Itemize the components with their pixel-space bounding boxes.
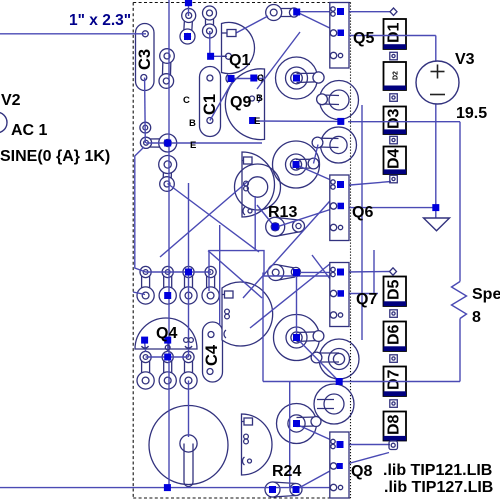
svg-text:D1: D1 [386, 22, 403, 43]
power transistor pad B2 [317, 81, 359, 120]
pin diamond above D5 [390, 268, 397, 275]
wire diag g3 [257, 32, 300, 89]
wire T3 to junction [209, 31, 211, 53]
wire v2 stubs [188, 3, 190, 17]
resistor R13 footprint [266, 217, 305, 236]
wire diag g5 [168, 184, 260, 253]
resistor row1 footprints x4 [137, 266, 219, 304]
svg-text:Speak: Speak [472, 286, 500, 303]
transistor package lower-mid (flat-left) [222, 282, 273, 346]
svg-text:D6: D6 [386, 324, 403, 345]
resistor R24 footprint [265, 482, 302, 497]
capacitor C1 footprint [200, 67, 221, 137]
pin markers mid package [242, 157, 252, 215]
wire diag g12 [250, 263, 331, 328]
Q4 pad marks [142, 338, 194, 350]
power output pad B10 big [149, 406, 228, 487]
svg-text:D2: D2 [393, 71, 400, 80]
wire row2 tops [146, 356, 189, 358]
power transistor pad B6 [274, 315, 324, 361]
connector strip Q5 [330, 3, 349, 69]
wire Q4 pad stubs [145, 341, 146, 352]
wire Q8 pad1 to D8 pad [343, 444, 390, 446]
wire diag g14 [298, 425, 340, 444]
wire gnd horizontal [349, 207, 436, 209]
wire diag g1 [236, 16, 268, 33]
resistor footprint top T3 [203, 6, 217, 38]
svg-text:Q5: Q5 [353, 30, 374, 47]
svg-text:C3: C3 [136, 49, 154, 70]
wire H5 to Q7 [300, 271, 330, 273]
diode D3 [384, 107, 407, 135]
wire diag g16 [297, 338, 340, 382]
diode D5 [384, 277, 407, 307]
wire diag g8 [277, 206, 341, 227]
diode chain pads [389, 52, 398, 449]
wire v8 [289, 382, 291, 488]
power transistor pad B8 [314, 384, 354, 424]
wire h4 [146, 142, 262, 144]
svg-text:D8: D8 [386, 414, 403, 435]
resistor footprint top T2 [180, 9, 196, 45]
svg-text:C4: C4 [203, 344, 221, 366]
power transistor pad B5 partial [235, 164, 281, 210]
wire over D3 [348, 121, 460, 123]
wire right rail top [459, 122, 461, 282]
pin markers Q9 [250, 75, 264, 103]
diode D4 [384, 147, 407, 175]
wire diag g11 [314, 145, 319, 164]
connector strip Q6 [330, 175, 349, 241]
wire v10 [361, 105, 363, 340]
wire diag g15 [297, 466, 339, 489]
diode D2 [384, 62, 407, 90]
svg-text:Q4: Q4 [156, 325, 177, 342]
svg-text:.lib TIP127.LIB: .lib TIP127.LIB [384, 479, 493, 496]
svg-text:B: B [256, 93, 263, 104]
svg-text:AC 1: AC 1 [11, 122, 48, 139]
svg-text:.lib TIP121.LIB: .lib TIP121.LIB [383, 462, 492, 479]
svg-text:D5: D5 [386, 279, 403, 300]
capacitor C4 footprint [203, 322, 223, 382]
svg-text:SINE(0 {A} 1K): SINE(0 {A} 1K) [0, 148, 110, 165]
wire v14 [188, 381, 190, 438]
ground symbol [424, 218, 450, 231]
wire over D1 [349, 35, 436, 37]
wire diag g10 [257, 205, 274, 226]
svg-text:E: E [190, 140, 196, 151]
svg-text:R24: R24 [272, 463, 301, 480]
svg-text:Q9: Q9 [230, 94, 251, 111]
capacitor C3 footprint [136, 24, 155, 91]
svg-text:Q1: Q1 [229, 52, 250, 69]
svg-text:C: C [257, 73, 264, 84]
board outline dashed 1" x 2.3" [133, 3, 350, 499]
connector strip Q7 [330, 263, 349, 327]
transistor Q1 package TO-92 [222, 22, 255, 73]
pin diamond above D1 [390, 8, 397, 15]
wire diag g6 [160, 182, 247, 257]
wire right rail bottom [459, 319, 461, 382]
wire rect loop [209, 251, 331, 291]
transistor Q4 package (flat-bottom) [135, 318, 197, 349]
wire diag g4 [210, 80, 234, 121]
wire over D7 [263, 381, 460, 383]
svg-text:8: 8 [472, 309, 481, 326]
wire h5 top [299, 11, 390, 13]
wire V3 bottom to gnd [435, 104, 437, 218]
wire h2 [231, 78, 263, 80]
wire Q6 pad1 to D4 pad [344, 182, 391, 186]
pin markers lower-mid package [222, 291, 233, 338]
wire v5 [219, 225, 221, 325]
wire V3 top [435, 36, 437, 62]
svg-text:Q6: Q6 [352, 204, 373, 221]
transistor package bottom (flat-left) [242, 414, 272, 475]
transistor Q9 package TO-92 [225, 69, 264, 140]
svg-text:E: E [254, 116, 260, 127]
resistor footprint pair left of C3 [159, 49, 174, 89]
pin markers bottom package [242, 418, 253, 465]
svg-text:C1: C1 [201, 94, 219, 115]
svg-text:D4: D4 [386, 148, 403, 169]
junction pads (blue squares) [141, 0, 439, 493]
power transistor pad B9 [277, 404, 322, 444]
diode D8 [384, 412, 407, 441]
transistor package mid (flat-left) [242, 152, 275, 217]
wire bottom rail [0, 487, 341, 489]
wire Q8 pad2 diag to D8 pad [339, 453, 389, 467]
wire Q7 pad2 right [344, 293, 378, 295]
wire v7 [262, 273, 264, 382]
svg-text:V2: V2 [1, 92, 21, 109]
wire h3 left [253, 120, 341, 122]
wire stub left edge [133, 292, 145, 295]
svg-text:1" x 2.3": 1" x 2.3" [69, 12, 131, 29]
svg-text:19.5: 19.5 [456, 105, 487, 122]
voltage source V3 [416, 61, 459, 104]
wire diag g7 [299, 166, 341, 185]
svg-text:D3: D3 [386, 108, 403, 129]
schematic pin letters Q9 [254, 73, 264, 127]
diode D7 [384, 367, 407, 397]
diode D6 [384, 322, 407, 352]
schematic pin letters left [183, 95, 196, 151]
pad ring below C3 [140, 122, 151, 133]
wire diag g13 [312, 255, 341, 294]
resistor row2 footprints x3 [137, 351, 197, 389]
svg-text:Q8: Q8 [351, 463, 372, 480]
wire diag g9 [243, 183, 346, 298]
wire h1 [211, 55, 227, 57]
power transistor pad B4 [312, 127, 356, 163]
speaker resistor zigzag [452, 282, 467, 319]
connector strip Q8 [330, 432, 349, 498]
wire left bend [135, 147, 146, 272]
resistor footprint H2 below C3 [140, 134, 176, 152]
svg-text:R13: R13 [268, 204, 297, 221]
wire diag from loop corner [208, 251, 262, 298]
wire Q7 pad1 to diamond [344, 271, 390, 274]
voltage source V2 (left edge, partial) [0, 112, 7, 133]
diode D1 [384, 19, 407, 49]
wire long vertical v1 [168, 0, 170, 488]
pin markers Q1 [222, 30, 237, 83]
svg-text:C: C [183, 95, 190, 106]
wire C3 bottom chain [144, 78, 147, 144]
power transistor pad B1 [276, 57, 325, 99]
wire v9 [296, 273, 298, 338]
wire input left to C3 [0, 33, 146, 35]
resistor footprint H5 mid horizontal [268, 265, 301, 281]
svg-text:B: B [189, 118, 196, 129]
svg-text:D7: D7 [386, 369, 403, 390]
resistor footprint T4 below H2 [159, 156, 177, 192]
power transistor pad B3 [273, 141, 320, 188]
power transistor pad B7 [311, 339, 359, 379]
wire row1 tops [146, 271, 211, 273]
svg-text:V3: V3 [455, 51, 475, 68]
wire diag g2 [297, 12, 339, 33]
wire v6 [254, 196, 256, 250]
resistor footprint H1 top horizontal [266, 5, 299, 21]
svg-text:Q7: Q7 [356, 291, 377, 308]
